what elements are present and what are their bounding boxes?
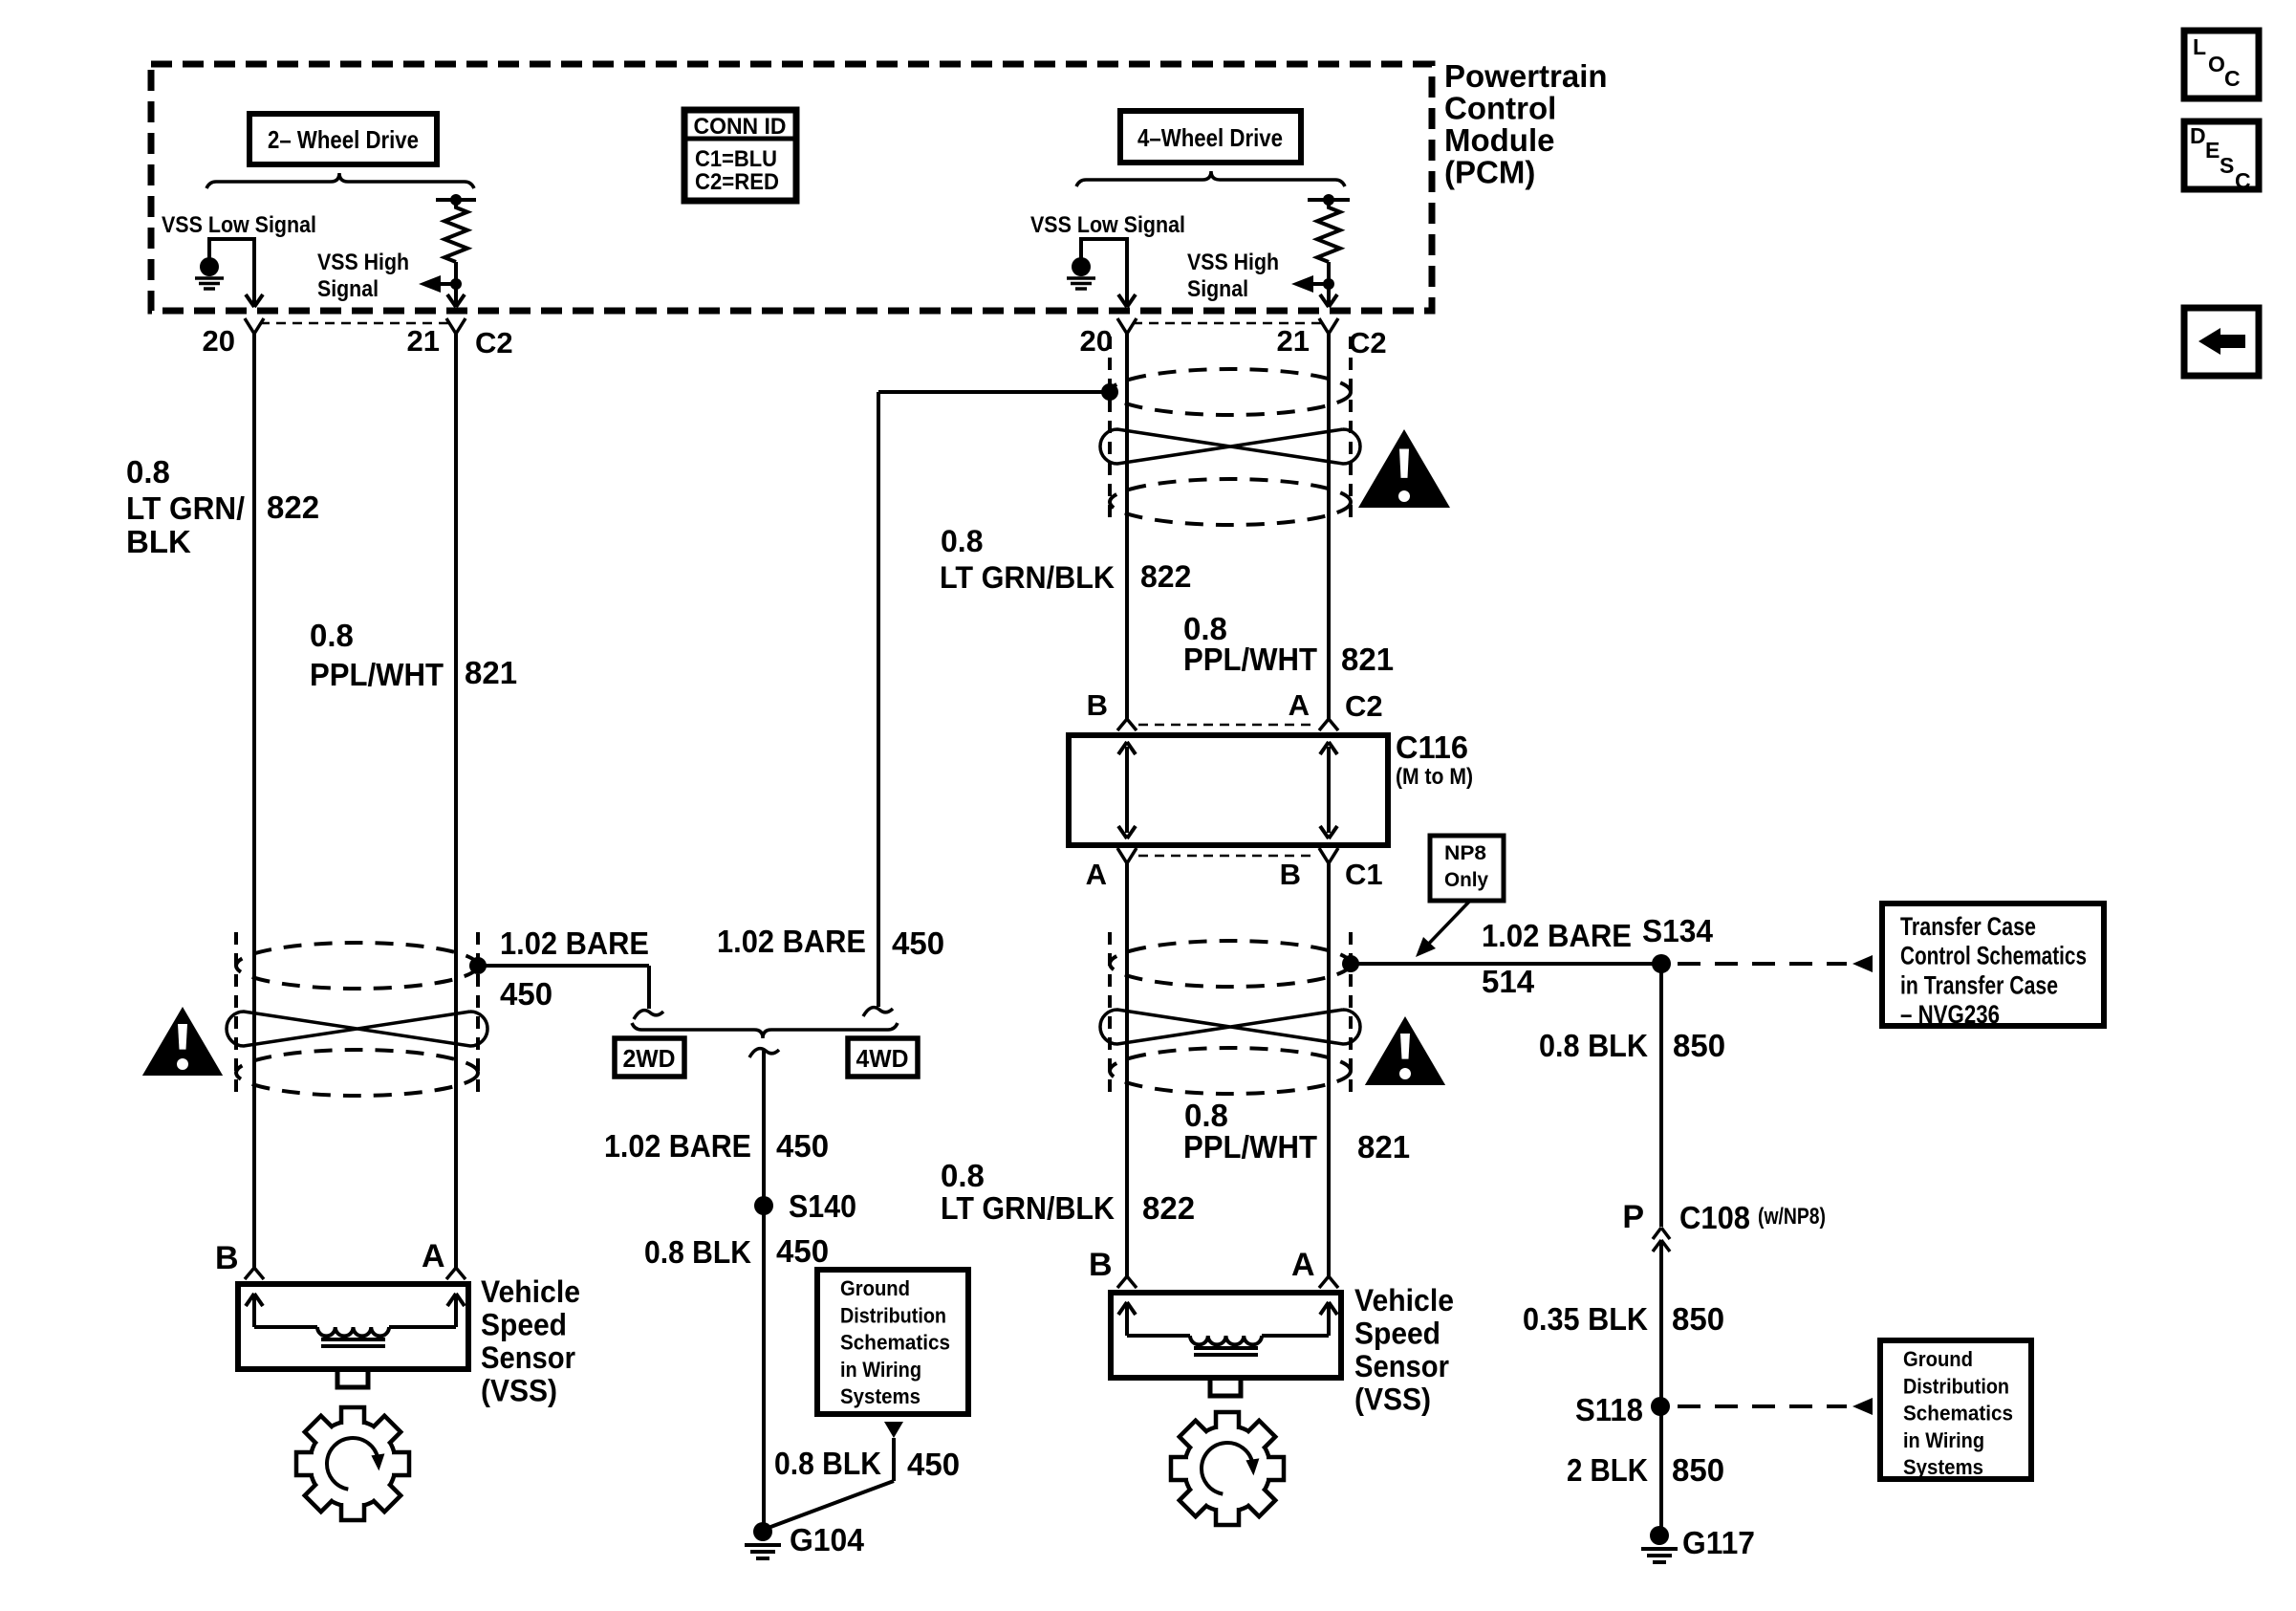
svg-text:Module: Module	[1444, 122, 1554, 158]
svg-text:LT GRN/BLK: LT GRN/BLK	[941, 1190, 1115, 1226]
svg-text:VSS Low Signal: VSS Low Signal	[1030, 212, 1185, 238]
svg-text:Distribution: Distribution	[840, 1303, 946, 1327]
svg-text:850: 850	[1673, 1028, 1725, 1063]
svg-text:Only: Only	[1444, 869, 1488, 891]
svg-text:Transfer Case: Transfer Case	[1900, 912, 2036, 941]
svg-text:C2: C2	[1345, 689, 1383, 723]
svg-text:PPL/WHT: PPL/WHT	[310, 657, 444, 692]
svg-text:(VSS): (VSS)	[1354, 1382, 1431, 1417]
svg-text:A: A	[422, 1238, 445, 1274]
svg-text:PPL/WHT: PPL/WHT	[1183, 642, 1317, 677]
svg-text:Speed: Speed	[481, 1308, 567, 1342]
svg-text:450: 450	[776, 1233, 829, 1269]
svg-text:450: 450	[892, 925, 944, 961]
svg-text:B: B	[1087, 688, 1108, 722]
svg-text:0.8: 0.8	[941, 1158, 985, 1193]
svg-text:0.35 BLK: 0.35 BLK	[1523, 1301, 1648, 1337]
svg-text:Powertrain: Powertrain	[1444, 58, 1608, 94]
svg-text:A: A	[1289, 688, 1310, 722]
svg-text:850: 850	[1672, 1301, 1724, 1337]
svg-text:Schematics: Schematics	[840, 1331, 950, 1355]
svg-text:A: A	[1086, 858, 1107, 891]
svg-text:LT GRN/: LT GRN/	[126, 490, 245, 526]
svg-text:(M to M): (M to M)	[1396, 764, 1473, 790]
svg-text:in Wiring: in Wiring	[1903, 1428, 1984, 1452]
svg-text:4–Wheel Drive: 4–Wheel Drive	[1137, 123, 1283, 152]
svg-text:821: 821	[465, 655, 517, 690]
svg-text:450: 450	[907, 1447, 960, 1482]
svg-text:20: 20	[1080, 324, 1113, 358]
svg-text:Distribution: Distribution	[1903, 1374, 2009, 1398]
svg-text:NP8: NP8	[1444, 842, 1486, 864]
svg-text:C2: C2	[1349, 326, 1387, 359]
svg-text:– NVG236: – NVG236	[1900, 1000, 2000, 1029]
svg-text:P: P	[1622, 1199, 1644, 1235]
svg-text:21: 21	[407, 324, 440, 358]
svg-text:Control: Control	[1444, 91, 1556, 126]
svg-text:0.8 BLK: 0.8 BLK	[644, 1234, 751, 1270]
svg-text:A: A	[1291, 1247, 1315, 1283]
svg-text:B: B	[1280, 858, 1301, 891]
svg-text:822: 822	[1142, 1190, 1195, 1226]
svg-text:2– Wheel Drive: 2– Wheel Drive	[268, 125, 419, 154]
svg-text:0.8: 0.8	[1184, 1098, 1228, 1133]
svg-text:C2=RED: C2=RED	[695, 169, 779, 195]
svg-text:S134: S134	[1642, 913, 1714, 948]
svg-text:821: 821	[1341, 642, 1394, 677]
svg-text:(w/NP8): (w/NP8)	[1758, 1204, 1826, 1230]
svg-text:C1: C1	[1345, 858, 1383, 891]
svg-text:514: 514	[1482, 964, 1535, 999]
svg-text:Systems: Systems	[1903, 1455, 1983, 1479]
svg-text:E: E	[2205, 138, 2220, 163]
svg-text:Systems: Systems	[840, 1384, 921, 1408]
svg-text:Vehicle: Vehicle	[1354, 1283, 1454, 1317]
svg-text:VSS High: VSS High	[317, 250, 409, 275]
svg-text:0.8: 0.8	[310, 618, 354, 653]
svg-text:821: 821	[1357, 1129, 1410, 1165]
svg-text:Sensor: Sensor	[481, 1340, 575, 1375]
svg-text:0.8: 0.8	[941, 524, 983, 558]
svg-text:B: B	[215, 1240, 239, 1276]
svg-text:PPL/WHT: PPL/WHT	[1183, 1129, 1317, 1165]
svg-text:0.8: 0.8	[126, 454, 170, 490]
svg-text:0.8 BLK: 0.8 BLK	[774, 1446, 881, 1481]
svg-text:450: 450	[776, 1128, 829, 1164]
svg-text:1.02 BARE: 1.02 BARE	[604, 1128, 751, 1164]
svg-text:1.02 BARE: 1.02 BARE	[1482, 918, 1632, 953]
svg-text:Signal: Signal	[317, 276, 379, 302]
svg-text:C: C	[2224, 66, 2241, 91]
svg-text:G104: G104	[790, 1522, 865, 1557]
svg-text:B: B	[1089, 1247, 1113, 1283]
svg-text:Sensor: Sensor	[1354, 1349, 1449, 1383]
svg-text:VSS High: VSS High	[1187, 250, 1279, 275]
svg-text:850: 850	[1672, 1452, 1724, 1488]
svg-text:CONN ID: CONN ID	[694, 114, 787, 140]
svg-text:O: O	[2208, 52, 2225, 76]
svg-text:Ground: Ground	[1903, 1347, 1973, 1371]
svg-text:4WD: 4WD	[856, 1044, 909, 1073]
svg-text:C: C	[2235, 168, 2251, 193]
svg-text:Ground: Ground	[840, 1276, 910, 1300]
svg-text:(VSS): (VSS)	[481, 1374, 557, 1408]
svg-text:C116: C116	[1396, 729, 1468, 765]
svg-text:Schematics: Schematics	[1903, 1402, 2013, 1426]
svg-text:450: 450	[500, 976, 552, 1012]
svg-text:L: L	[2193, 34, 2206, 59]
svg-text:21: 21	[1277, 324, 1310, 358]
svg-text:Signal: Signal	[1187, 276, 1248, 302]
svg-text:20: 20	[203, 324, 235, 358]
svg-text:Control Schematics: Control Schematics	[1900, 942, 2087, 970]
svg-text:822: 822	[1140, 559, 1191, 594]
svg-text:1.02 BARE: 1.02 BARE	[717, 924, 866, 959]
svg-text:(PCM): (PCM)	[1444, 155, 1535, 190]
svg-text:LT GRN/BLK: LT GRN/BLK	[940, 560, 1115, 595]
svg-text:BLK: BLK	[126, 524, 191, 559]
svg-text:Vehicle: Vehicle	[481, 1274, 580, 1309]
svg-text:D: D	[2190, 123, 2206, 148]
svg-text:in Wiring: in Wiring	[840, 1358, 921, 1382]
svg-text:VSS Low Signal: VSS Low Signal	[162, 212, 316, 238]
svg-text:0.8 BLK: 0.8 BLK	[1539, 1028, 1648, 1063]
svg-text:C2: C2	[475, 326, 513, 359]
svg-text:822: 822	[267, 490, 319, 525]
svg-text:2 BLK: 2 BLK	[1567, 1452, 1648, 1488]
svg-text:C1=BLU: C1=BLU	[695, 146, 777, 172]
svg-text:Speed: Speed	[1354, 1317, 1440, 1351]
svg-text:2WD: 2WD	[623, 1044, 676, 1073]
svg-text:S140: S140	[789, 1188, 856, 1224]
svg-text:in Transfer Case: in Transfer Case	[1900, 970, 2058, 999]
svg-text:S118: S118	[1575, 1392, 1643, 1427]
svg-text:G117: G117	[1682, 1525, 1755, 1560]
svg-text:S: S	[2220, 153, 2234, 178]
svg-text:C108: C108	[1679, 1200, 1750, 1235]
svg-text:1.02 BARE: 1.02 BARE	[500, 925, 649, 961]
